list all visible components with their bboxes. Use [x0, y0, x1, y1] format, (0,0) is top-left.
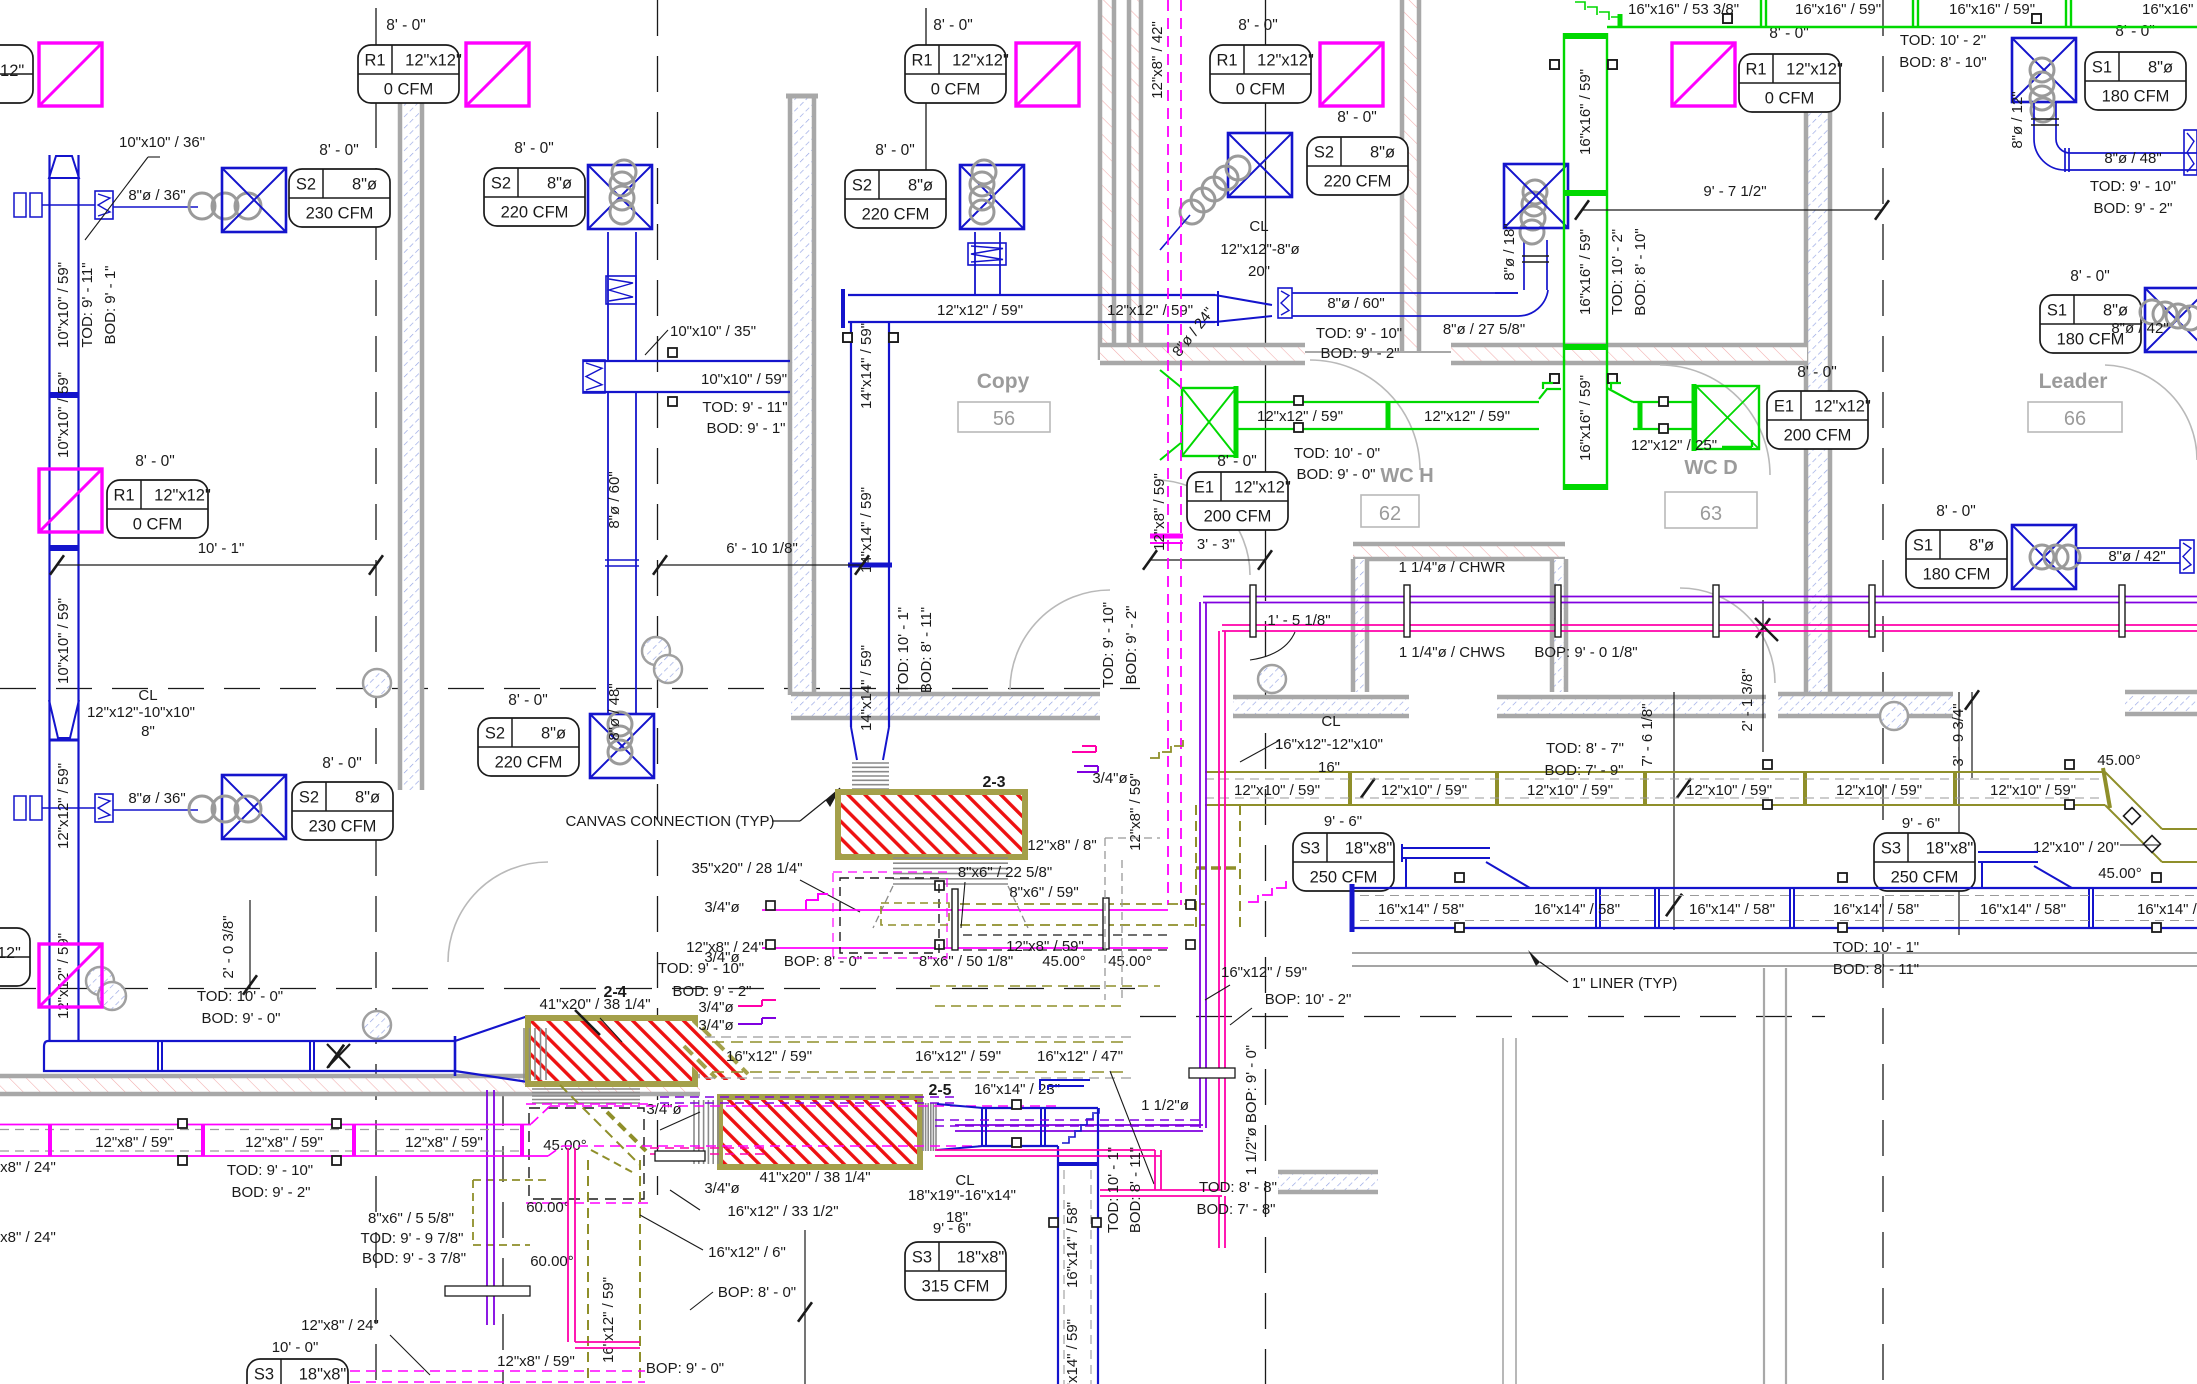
svg-text:8"ø: 8"ø: [2148, 59, 2173, 77]
svg-text:16"x12" / 59": 16"x12" / 59": [600, 1277, 617, 1363]
svg-text:16"x16" / 59": 16"x16" / 59": [1577, 229, 1594, 315]
svg-text:2' - 1 3/8": 2' - 1 3/8": [1739, 668, 1756, 731]
svg-text:12"x10" / 59": 12"x10" / 59": [1527, 782, 1613, 799]
svg-text:8' - 0": 8' - 0": [386, 17, 425, 34]
svg-text:16"x12" / 6": 16"x12" / 6": [708, 1244, 786, 1261]
svg-text:8' - 0": 8' - 0": [1337, 109, 1376, 126]
svg-text:TOD: 9' - 10": TOD: 9' - 10": [227, 1162, 313, 1179]
svg-text:8' - 0": 8' - 0": [322, 755, 361, 772]
svg-text:250 CFM: 250 CFM: [1310, 869, 1378, 887]
svg-text:S2: S2: [491, 175, 511, 193]
svg-text:56: 56: [993, 408, 1015, 430]
svg-text:45.00°: 45.00°: [1042, 953, 1086, 970]
svg-text:8"x6" / 50 1/8": 8"x6" / 50 1/8": [919, 953, 1013, 970]
svg-text:18"x8": 18"x8": [299, 1366, 347, 1384]
svg-text:8"x6" / 59": 8"x6" / 59": [1009, 884, 1078, 901]
svg-text:TOD: 9' - 9 7/8": TOD: 9' - 9 7/8": [361, 1230, 464, 1247]
svg-text:66: 66: [2064, 408, 2086, 430]
svg-text:12"x12" / 59": 12"x12" / 59": [55, 763, 72, 849]
svg-text:12"x10" / 59": 12"x10" / 59": [1990, 782, 2076, 799]
svg-text:8' - 0": 8' - 0": [514, 140, 553, 157]
svg-text:41"x20" / 38 1/4": 41"x20" / 38 1/4": [759, 1169, 870, 1186]
svg-text:E1: E1: [1774, 398, 1794, 416]
svg-text:230 CFM: 230 CFM: [306, 205, 374, 223]
svg-text:10"x10" / 59": 10"x10" / 59": [701, 371, 787, 388]
svg-text:TOD: 9' - 10": TOD: 9' - 10": [1316, 325, 1402, 342]
svg-text:8' - 0": 8' - 0": [2115, 23, 2154, 40]
svg-text:12"x12": 12"x12": [1257, 52, 1314, 70]
svg-text:315 CFM: 315 CFM: [922, 1278, 990, 1296]
svg-text:16"x16" / 59": 16"x16" / 59": [1577, 375, 1594, 461]
svg-text:8' - 0": 8' - 0": [319, 142, 358, 159]
svg-text:BOD: 8' - 10": BOD: 8' - 10": [1899, 54, 1986, 71]
svg-text:16"x14" / 58": 16"x14" / 58": [1378, 901, 1464, 918]
svg-text:BOD: 8' - 11": BOD: 8' - 11": [918, 607, 935, 693]
svg-text:BOD: 9' - 2": BOD: 9' - 2": [2093, 200, 2172, 217]
svg-text:180 CFM: 180 CFM: [2102, 88, 2170, 106]
svg-text:200 CFM: 200 CFM: [1204, 508, 1272, 526]
svg-text:0 CFM: 0 CFM: [384, 81, 434, 99]
svg-text:WC H: WC H: [1380, 465, 1433, 487]
svg-text:WC D: WC D: [1684, 457, 1737, 479]
svg-text:TOD: 10' - 0": TOD: 10' - 0": [197, 988, 283, 1005]
svg-text:BOD: 8' - 10": BOD: 8' - 10": [1632, 228, 1649, 315]
svg-text:TOD: 9' - 11": TOD: 9' - 11": [79, 262, 96, 347]
svg-text:18"x19"-16"x14": 18"x19"-16"x14": [908, 1187, 1016, 1204]
svg-text:35"x20" / 28 1/4": 35"x20" / 28 1/4": [691, 860, 802, 877]
svg-text:16"x12" / 59": 16"x12" / 59": [726, 1048, 812, 1065]
svg-text:3/4"ø: 3/4"ø: [704, 899, 739, 916]
svg-text:12"x8" / 59": 12"x8" / 59": [1127, 773, 1144, 851]
svg-text:12"x10" / 59": 12"x10" / 59": [1836, 782, 1922, 799]
svg-text:12"x12"-8"ø: 12"x12"-8"ø: [1220, 241, 1299, 258]
svg-text:12"x12" / 59": 12"x12" / 59": [937, 302, 1023, 319]
svg-text:BOD: 8' - 11": BOD: 8' - 11": [1833, 961, 1919, 978]
svg-text:9' - 7 1/2": 9' - 7 1/2": [1703, 183, 1766, 200]
svg-text:200 CFM: 200 CFM: [1784, 427, 1852, 445]
svg-text:220 CFM: 220 CFM: [1324, 173, 1392, 191]
svg-text:8' - 0": 8' - 0": [508, 692, 547, 709]
svg-text:10' - 0": 10' - 0": [272, 1339, 319, 1356]
svg-text:8' - 0": 8' - 0": [2070, 268, 2109, 285]
svg-text:TOD: 9' - 10": TOD: 9' - 10": [658, 960, 744, 977]
svg-text:x12": x12": [0, 945, 21, 962]
svg-text:16"x14" / 58": 16"x14" / 58": [1064, 1202, 1081, 1288]
svg-text:1 1/4"ø / CHWS: 1 1/4"ø / CHWS: [1399, 644, 1505, 661]
svg-text:8"ø / 18": 8"ø / 18": [1501, 223, 1518, 280]
svg-text:S3: S3: [1881, 840, 1901, 858]
svg-text:12"x12": 12"x12": [405, 52, 462, 70]
svg-text:CL: CL: [138, 687, 157, 704]
svg-text:62: 62: [1379, 503, 1401, 525]
svg-text:12"x12": 12"x12": [952, 52, 1009, 70]
svg-text:R1: R1: [1745, 61, 1766, 79]
svg-text:8"ø: 8"ø: [908, 177, 933, 195]
svg-text:TOD: 8' - 8": TOD: 8' - 8": [1199, 1179, 1277, 1196]
svg-text:x8" / 24": x8" / 24": [0, 1229, 56, 1246]
svg-text:R1: R1: [364, 52, 385, 70]
svg-text:CANVAS CONNECTION (TYP): CANVAS CONNECTION (TYP): [566, 813, 775, 830]
svg-text:16"x14" / 59": 16"x14" / 59": [1064, 1319, 1081, 1384]
svg-text:220 CFM: 220 CFM: [862, 206, 930, 224]
svg-text:S3: S3: [1300, 840, 1320, 858]
svg-text:8"ø: 8"ø: [547, 175, 572, 193]
svg-text:12"x12": 12"x12": [1234, 479, 1291, 497]
svg-text:1 1/2"ø BOP: 9' - 0": 1 1/2"ø BOP: 9' - 0": [1243, 1045, 1260, 1175]
svg-text:TOD: 10' - 2": TOD: 10' - 2": [1609, 229, 1626, 315]
svg-text:S2: S2: [299, 789, 319, 807]
svg-text:16"x16" / 59": 16"x16" / 59": [1795, 1, 1881, 18]
svg-text:16": 16": [1318, 759, 1340, 776]
svg-text:8"ø: 8"ø: [352, 176, 377, 194]
svg-text:3/4"ø: 3/4"ø: [704, 1180, 739, 1197]
svg-text:10"x10" / 59": 10"x10" / 59": [55, 262, 72, 348]
svg-text:16"x14" / 58": 16"x14" / 58": [1833, 901, 1919, 918]
svg-text:12"x10" / 20": 12"x10" / 20": [2033, 839, 2119, 856]
svg-text:8' - 0": 8' - 0": [1238, 17, 1277, 34]
svg-text:12"x8" / 59": 12"x8" / 59": [95, 1134, 173, 1151]
svg-text:16"x14" / 58": 16"x14" / 58": [2137, 901, 2197, 918]
svg-text:CL: CL: [1249, 218, 1268, 235]
svg-text:12"x8" / 59": 12"x8" / 59": [1006, 938, 1084, 955]
svg-text:8"ø / 60": 8"ø / 60": [1327, 295, 1384, 312]
svg-text:45.00°: 45.00°: [2098, 865, 2142, 882]
svg-text:12"x12"-10"x10": 12"x12"-10"x10": [87, 704, 195, 721]
svg-text:TOD: 10' - 0": TOD: 10' - 0": [1294, 445, 1380, 462]
svg-text:8"ø: 8"ø: [1370, 144, 1395, 162]
svg-text:Copy: Copy: [977, 370, 1030, 393]
svg-text:45.00°: 45.00°: [2097, 752, 2141, 769]
svg-text:9' - 6": 9' - 6": [1324, 813, 1362, 830]
svg-text:220 CFM: 220 CFM: [501, 204, 569, 222]
svg-text:8"ø / 48": 8"ø / 48": [606, 683, 623, 740]
svg-text:3/4"ø: 3/4"ø: [646, 1101, 681, 1118]
svg-text:45.00°: 45.00°: [1108, 953, 1152, 970]
svg-text:12"x8" / 59": 12"x8" / 59": [1151, 473, 1168, 551]
svg-text:8"ø: 8"ø: [541, 725, 566, 743]
svg-text:18": 18": [946, 1209, 968, 1226]
svg-text:12"x8" / 59": 12"x8" / 59": [405, 1134, 483, 1151]
svg-text:12"x8" / 59": 12"x8" / 59": [245, 1134, 323, 1151]
svg-text:S2: S2: [1314, 144, 1334, 162]
svg-text:16"x16" / 59": 16"x16" / 59": [2142, 1, 2197, 18]
svg-text:7' - 6 1/8": 7' - 6 1/8": [1639, 703, 1656, 766]
svg-text:S2: S2: [485, 725, 505, 743]
svg-text:x12": x12": [0, 62, 24, 80]
svg-text:6' - 10 1/8": 6' - 10 1/8": [726, 540, 798, 557]
svg-text:250 CFM: 250 CFM: [1891, 869, 1959, 887]
svg-text:63: 63: [1700, 503, 1722, 525]
svg-text:TOD: 9' - 10": TOD: 9' - 10": [1100, 602, 1117, 688]
svg-text:230 CFM: 230 CFM: [309, 818, 377, 836]
svg-text:TOD: 9' - 11": TOD: 9' - 11": [702, 399, 787, 416]
svg-text:BOD: 8' - 11": BOD: 8' - 11": [1127, 1147, 1144, 1233]
svg-text:2-3: 2-3: [982, 774, 1005, 791]
svg-text:8' - 0": 8' - 0": [1936, 503, 1975, 520]
svg-text:1' - 5 1/8": 1' - 5 1/8": [1267, 612, 1330, 629]
svg-text:12"x12": 12"x12": [1786, 61, 1843, 79]
svg-text:TOD: 8' - 7": TOD: 8' - 7": [1546, 740, 1624, 757]
svg-text:2' - 0 3/8": 2' - 0 3/8": [220, 915, 237, 978]
svg-text:S2: S2: [852, 177, 872, 195]
svg-text:8' - 0": 8' - 0": [1797, 364, 1836, 381]
svg-text:R1: R1: [911, 52, 932, 70]
svg-text:10"x10" / 59": 10"x10" / 59": [55, 372, 72, 458]
svg-text:18"x8": 18"x8": [957, 1249, 1005, 1267]
svg-text:60.00°: 60.00°: [526, 1199, 570, 1216]
svg-text:0 CFM: 0 CFM: [931, 81, 981, 99]
svg-text:BOD: 9' - 1": BOD: 9' - 1": [706, 420, 785, 437]
svg-text:10"x10" / 35": 10"x10" / 35": [670, 323, 756, 340]
svg-text:S1: S1: [1913, 537, 1933, 555]
svg-text:14"x14" / 59": 14"x14" / 59": [858, 645, 875, 731]
svg-text:BOP: 10' - 2": BOP: 10' - 2": [1265, 991, 1352, 1008]
svg-text:CL: CL: [1321, 713, 1340, 730]
svg-text:12"x10" / 59": 12"x10" / 59": [1381, 782, 1467, 799]
svg-text:16"x16" / 59": 16"x16" / 59": [1577, 69, 1594, 155]
svg-text:BOP: 8' - 0": BOP: 8' - 0": [784, 953, 862, 970]
svg-text:16"x16" / 59": 16"x16" / 59": [1949, 1, 2035, 18]
svg-text:10"x10" / 36": 10"x10" / 36": [119, 134, 205, 151]
svg-text:R1: R1: [1216, 52, 1237, 70]
svg-text:18"x8": 18"x8": [1345, 840, 1393, 858]
svg-text:180 CFM: 180 CFM: [1923, 566, 1991, 584]
svg-text:BOD: 9' - 0": BOD: 9' - 0": [1296, 466, 1375, 483]
svg-text:8"ø: 8"ø: [355, 789, 380, 807]
svg-text:TOD: 10' - 2": TOD: 10' - 2": [1900, 32, 1986, 49]
svg-text:12"x12" / 59": 12"x12" / 59": [1424, 408, 1510, 425]
svg-text:8' - 0": 8' - 0": [933, 17, 972, 34]
svg-text:1" LINER (TYP): 1" LINER (TYP): [1572, 975, 1677, 992]
svg-text:BOD: 9' - 0": BOD: 9' - 0": [201, 1010, 280, 1027]
svg-text:8"x6" / 22 5/8": 8"x6" / 22 5/8": [958, 864, 1052, 881]
svg-text:TOD: 10' - 1": TOD: 10' - 1": [1833, 939, 1919, 956]
svg-text:8"ø / 48": 8"ø / 48": [2104, 150, 2161, 167]
svg-text:41"x20" / 38 1/4": 41"x20" / 38 1/4": [539, 996, 650, 1013]
svg-text:1 1/2"ø: 1 1/2"ø: [1141, 1097, 1189, 1114]
svg-text:8"ø / 42": 8"ø / 42": [2111, 320, 2168, 337]
svg-text:S1: S1: [2047, 302, 2067, 320]
svg-text:8' - 0": 8' - 0": [875, 142, 914, 159]
svg-text:3/4"ø: 3/4"ø: [698, 999, 733, 1016]
svg-text:16"x12" / 59": 16"x12" / 59": [915, 1048, 1001, 1065]
svg-text:16"x14" / 58": 16"x14" / 58": [1689, 901, 1775, 918]
svg-text:12"x8" / 59": 12"x8" / 59": [497, 1353, 575, 1370]
svg-text:BOD: 7' - 8": BOD: 7' - 8": [1196, 1201, 1275, 1218]
svg-text:S2: S2: [296, 176, 316, 194]
svg-text:12"x10" / 59": 12"x10" / 59": [1234, 782, 1320, 799]
svg-text:S3: S3: [912, 1249, 932, 1267]
svg-text:12"x8" / 24": 12"x8" / 24": [301, 1317, 379, 1334]
svg-text:Leader: Leader: [2039, 370, 2108, 393]
svg-text:BOD: 7' - 9": BOD: 7' - 9": [1544, 762, 1623, 779]
svg-text:R1: R1: [113, 487, 134, 505]
svg-text:8"ø / 36": 8"ø / 36": [128, 187, 185, 204]
svg-text:TOD: 10' - 1": TOD: 10' - 1": [895, 607, 912, 693]
svg-text:S3: S3: [254, 1366, 274, 1384]
svg-text:10"x10" / 59": 10"x10" / 59": [55, 598, 72, 684]
svg-text:8"x6" / 5 5/8": 8"x6" / 5 5/8": [368, 1210, 454, 1227]
svg-text:20": 20": [1248, 263, 1270, 280]
svg-text:12"x8" / 24": 12"x8" / 24": [686, 939, 764, 956]
svg-text:8"ø / 60": 8"ø / 60": [606, 471, 623, 528]
svg-text:10' - 1": 10' - 1": [198, 540, 245, 557]
svg-text:8"ø / 36": 8"ø / 36": [128, 790, 185, 807]
svg-text:BOD: 9' - 1": BOD: 9' - 1": [102, 265, 119, 344]
svg-text:8"ø / 27 5/8": 8"ø / 27 5/8": [1443, 321, 1525, 338]
svg-text:BOP: 9' - 0": BOP: 9' - 0": [646, 1360, 724, 1377]
svg-text:TOD: 9' - 10": TOD: 9' - 10": [2090, 178, 2176, 195]
svg-text:S1: S1: [2092, 59, 2112, 77]
svg-text:0 CFM: 0 CFM: [1236, 81, 1286, 99]
svg-text:12"x12" / 25": 12"x12" / 25": [1631, 437, 1717, 454]
svg-text:16"x12" / 59": 16"x12" / 59": [1221, 964, 1307, 981]
svg-text:0 CFM: 0 CFM: [133, 516, 183, 534]
svg-text:BOD: 9' - 2": BOD: 9' - 2": [672, 983, 751, 1000]
svg-text:16"x14" / 58": 16"x14" / 58": [1980, 901, 2066, 918]
svg-text:x8" / 24": x8" / 24": [0, 1159, 56, 1176]
svg-text:3/4"ø: 3/4"ø: [698, 1017, 733, 1034]
svg-text:12"x8" / 8": 12"x8" / 8": [1027, 837, 1096, 854]
svg-text:9' - 6": 9' - 6": [1902, 815, 1940, 832]
svg-text:220 CFM: 220 CFM: [495, 754, 563, 772]
svg-text:12"x10" / 59": 12"x10" / 59": [1686, 782, 1772, 799]
svg-text:18"x8": 18"x8": [1926, 840, 1974, 858]
svg-text:8"ø: 8"ø: [2103, 302, 2128, 320]
svg-text:12"x12": 12"x12": [154, 487, 211, 505]
svg-text:8' - 0": 8' - 0": [135, 453, 174, 470]
svg-text:12"x12": 12"x12": [1814, 398, 1871, 416]
svg-text:BOD: 9' - 3 7/8": BOD: 9' - 3 7/8": [362, 1250, 466, 1267]
svg-text:BOP: 8' - 0": BOP: 8' - 0": [718, 1284, 796, 1301]
svg-text:16"x12" / 33 1/2": 16"x12" / 33 1/2": [727, 1203, 838, 1220]
svg-text:8"ø / 12": 8"ø / 12": [2009, 91, 2026, 148]
svg-text:E1: E1: [1194, 479, 1214, 497]
svg-text:8": 8": [141, 723, 155, 740]
svg-text:16"x12"-12"x10": 16"x12"-12"x10": [1275, 736, 1383, 753]
svg-text:8' - 0": 8' - 0": [1217, 453, 1256, 470]
svg-text:BOD: 9' - 2": BOD: 9' - 2": [231, 1184, 310, 1201]
svg-text:TOD: 10' - 1": TOD: 10' - 1": [1105, 1147, 1122, 1233]
svg-text:3' - 3": 3' - 3": [1197, 536, 1235, 553]
svg-text:BOD: 9' - 2": BOD: 9' - 2": [1123, 605, 1140, 684]
svg-text:12"x8" / 42": 12"x8" / 42": [1149, 21, 1166, 99]
svg-text:BOP: 9' - 0 1/8": BOP: 9' - 0 1/8": [1534, 644, 1637, 661]
svg-text:0 CFM: 0 CFM: [1765, 90, 1815, 108]
svg-text:16"x12" / 47": 16"x12" / 47": [1037, 1048, 1123, 1065]
svg-text:8"ø: 8"ø: [1969, 537, 1994, 555]
svg-text:14"x14" / 59": 14"x14" / 59": [858, 323, 875, 409]
svg-text:1 1/4"ø / CHWR: 1 1/4"ø / CHWR: [1398, 559, 1505, 576]
svg-text:16"x14" / 58": 16"x14" / 58": [1534, 901, 1620, 918]
svg-text:8"ø / 42": 8"ø / 42": [2108, 548, 2165, 565]
svg-text:BOD: 9' - 2": BOD: 9' - 2": [1320, 345, 1399, 362]
